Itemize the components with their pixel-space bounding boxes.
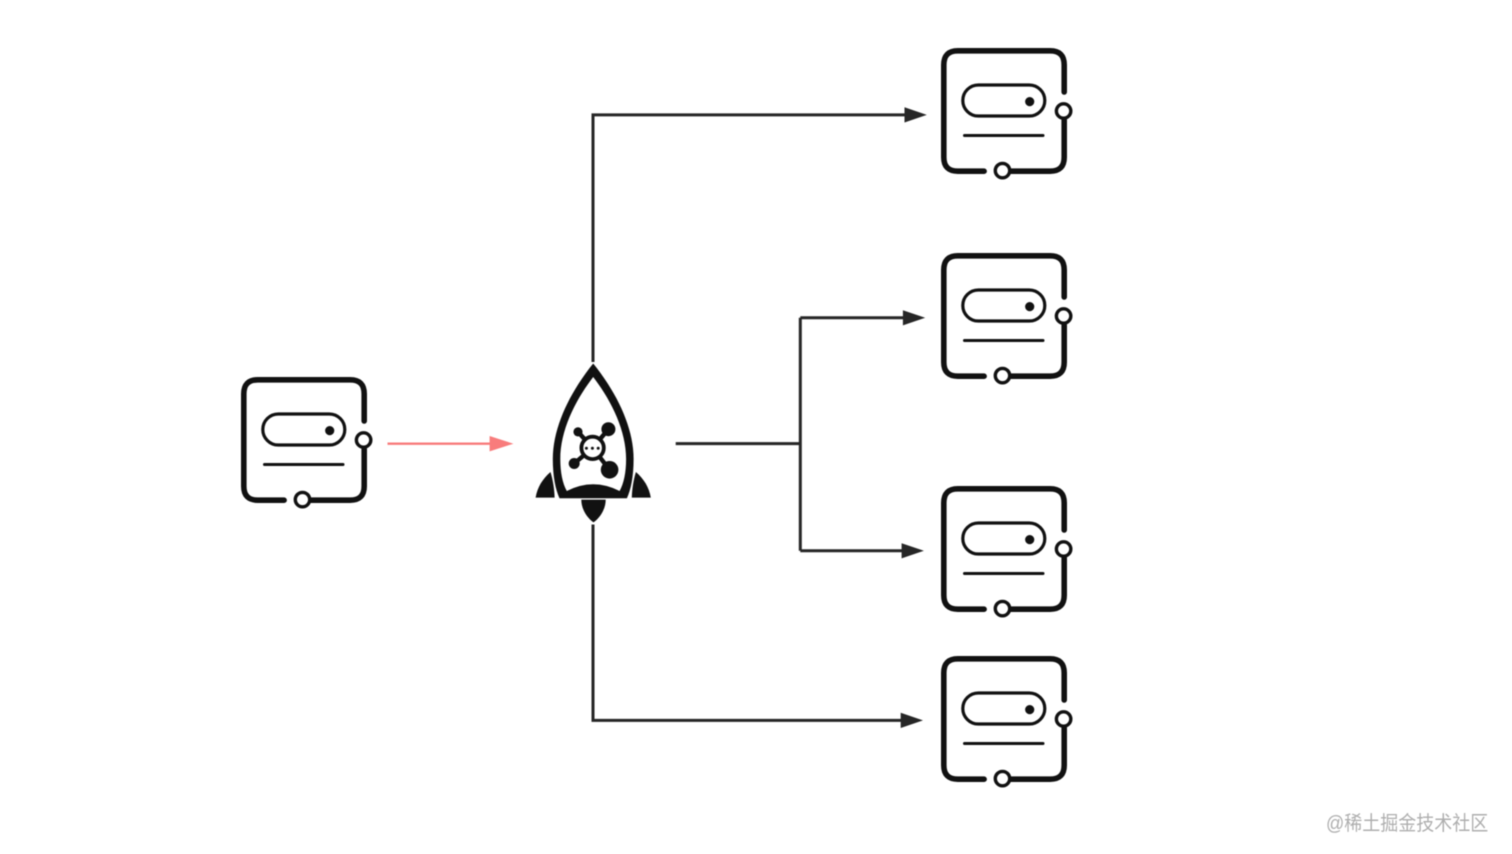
wire: branch to app 3 [800,549,903,552]
app icon 3 [944,489,1071,616]
molecule node bottom-left [569,458,580,469]
molecule node top-right [601,422,615,436]
molecule center circle [581,437,603,459]
wire: rocket top up and right to app 1 [593,115,906,362]
wire: branch vertical [799,318,802,551]
rocket hull inner [560,377,626,491]
app icon 1 (top right) [944,51,1071,178]
rocket fin right [632,472,651,498]
app icon 2 [944,256,1071,383]
app icon 4 (bottom right) [944,659,1071,786]
molecule node bottom-right [601,461,619,479]
rocket icon [536,364,651,523]
app icon left (source) [244,380,371,507]
rocket flame [581,500,605,523]
wire: rocket bottom down and right to app 4 [593,525,902,721]
watermark [1326,807,1488,836]
molecule bonds [574,429,609,470]
arrowhead to app 2 [903,310,925,325]
arrowhead to app 1 [905,107,927,122]
molecule dots [585,447,588,450]
molecule node top-left [573,427,582,436]
arrowhead to app 3 [902,543,924,558]
arrowhead to app 4 [901,713,923,728]
red arrow from left app to rocket [388,436,514,451]
wire: rocket right to branch point [676,442,801,445]
rocket hull outer [553,364,634,499]
wire: branch to app 2 [800,316,904,319]
rocket fin left [536,472,555,498]
